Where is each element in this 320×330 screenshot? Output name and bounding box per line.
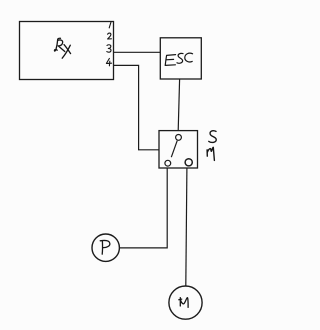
switch common contact [176,135,182,141]
label Rx [54,38,70,58]
switch box [159,131,198,168]
switch contact right [185,159,192,166]
potentiometer circle P [92,234,119,261]
label S [209,131,216,143]
pin 4 [106,58,111,65]
switch contact left [165,160,171,166]
wire switch right contact to motor [186,168,187,286]
pin 2 [108,33,112,39]
receiver box RX [20,22,114,80]
label ESC [165,53,192,65]
label P [100,240,110,254]
wire pin3 to ESC [114,51,160,53]
label M motor [179,298,188,308]
motor circle M [169,286,202,319]
pin 3 [107,45,111,52]
switch lever [171,141,177,158]
label M [207,147,214,160]
pin 1 [109,22,111,28]
wire pin4 to switch [114,65,159,149]
ESC box [160,38,201,79]
wire ESC to switch [178,79,179,131]
wire switch left contact to P [120,168,168,248]
